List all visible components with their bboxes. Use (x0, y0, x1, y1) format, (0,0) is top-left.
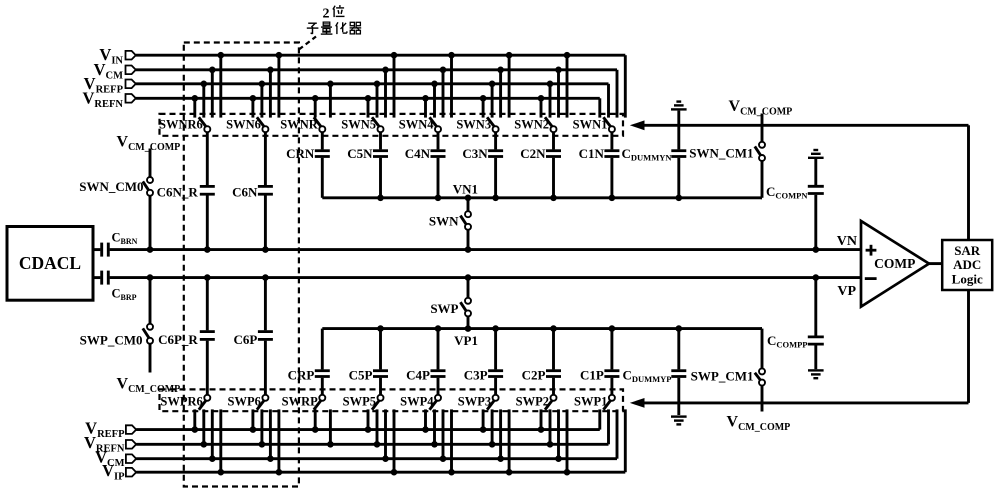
wire V_REFP bus (bottom) (136, 428, 600, 431)
capacitor C5P (349, 329, 388, 395)
svg-text:C4P: C4P (406, 368, 430, 383)
wire SWPR6 tap V_IP (218, 409, 225, 475)
switch SWN4 (399, 117, 441, 132)
wire SWPR6 tap V_REFN (201, 409, 208, 447)
svg-text:SWN_CM0: SWN_CM0 (79, 179, 143, 194)
wire CDACL to C_BRN (93, 248, 100, 251)
svg-text:SWN6: SWN6 (226, 117, 261, 131)
svg-text:C6N: C6N (232, 184, 258, 199)
port V_REFN (bottom) (84, 433, 136, 455)
svg-text:SWNR6: SWNR6 (159, 117, 203, 131)
svg-text:SWP3: SWP3 (458, 394, 491, 408)
wire SWN1 tap V_CM (bus end) (616, 70, 619, 118)
svg-text:CDACL: CDACL (19, 253, 81, 273)
capacitor C5N (347, 132, 388, 198)
svg-text:SWP: SWP (430, 301, 458, 316)
svg-text:C5P: C5P (349, 368, 373, 383)
wire SWN4 tap V_IN (448, 52, 455, 118)
node V_CM_COMP (upper right) (729, 98, 793, 142)
wire SAR feedback to N switch array (644, 125, 969, 240)
capacitor C6N_R (157, 132, 215, 253)
wire V_CM bus (bottom) (136, 457, 617, 460)
ground (above C_COMPN) (808, 150, 824, 158)
capacitor C6P (234, 274, 273, 394)
wire SWN2 tap V_REFN (538, 95, 545, 118)
port V_IN (top) (99, 45, 135, 66)
capacitor C3P (464, 329, 503, 395)
svg-text:VN1: VN1 (453, 182, 478, 197)
wire SWP3 tap V_REFP (480, 409, 487, 433)
node V_CM_COMP (upper left) (117, 134, 181, 178)
wire SWP2 tap V_REFN (547, 409, 554, 447)
label: 2-bit sub-quantizer (Chinese) line 2 (307, 22, 361, 34)
wire SWN6 tap V_IN (276, 52, 283, 118)
wire SWN3 tap V_REFN (480, 95, 487, 118)
svg-text:ADC: ADC (953, 257, 981, 272)
wire SWN2 tap V_IN (564, 52, 571, 118)
ground (above C_DUMMYN) (671, 102, 687, 110)
wire SWN4 tap V_REFP (431, 81, 438, 118)
svg-text:VP1: VP1 (454, 333, 478, 348)
svg-text:SWN4: SWN4 (399, 117, 434, 131)
svg-text:SWN: SWN (429, 213, 459, 228)
wire V_REFN bus (bottom) (136, 443, 608, 446)
svg-text:C6P_R: C6P_R (158, 332, 198, 347)
svg-text:C6N_R: C6N_R (157, 184, 199, 199)
wire SWN4 tap V_REFN (422, 95, 429, 118)
svg-text:C2P: C2P (522, 368, 546, 383)
wire SWN3 tap V_CM (497, 67, 504, 118)
capacitor C_BRN (102, 231, 138, 257)
switch SWNR6 (159, 117, 210, 132)
switch SWN6 (226, 117, 268, 132)
capacitor C_DUMMYP (622, 329, 686, 415)
switch SWN3 (456, 117, 498, 132)
svg-text:C5N: C5N (347, 146, 373, 161)
wire SWNR6 tap V_REFP (201, 81, 208, 118)
svg-text:CRN: CRN (286, 146, 315, 161)
wire SWN5 tap V_IN (391, 52, 398, 118)
svg-text:SWP5: SWP5 (343, 394, 376, 408)
switch SWP_CM0 (80, 274, 154, 372)
capacitor C_DUMMYN (622, 111, 687, 198)
wire VN line (110, 248, 861, 251)
svg-text:C3P: C3P (464, 368, 488, 383)
svg-text:SWP6: SWP6 (228, 394, 261, 408)
wire SWP3 tap V_IP (506, 409, 513, 475)
ground (below C_COMPP) (808, 370, 824, 378)
capacitor C2N (520, 132, 561, 198)
switch SWRP (282, 394, 326, 409)
switch SWN5 (341, 117, 383, 132)
wire SWP3 tap V_CM (497, 409, 504, 462)
wire SWP6 tap V_IP (276, 409, 283, 475)
capacitor C_COMPN (766, 159, 824, 253)
capacitor C1P (580, 329, 619, 395)
wire comparator output (929, 262, 942, 265)
capacitor C2P (522, 329, 561, 395)
port V_REFP (top) (84, 74, 136, 96)
switch SWNR (280, 117, 325, 132)
node V_CM_COMP (lower left) (117, 376, 181, 396)
wire SWP4 tap V_REFP (422, 409, 429, 433)
wire SWNR6 tap V_IN (218, 52, 225, 118)
switch SWP1 (574, 394, 615, 409)
wire SWP1 tap V_REFP (bus end) (598, 409, 601, 429)
wire CDACL to C_BRP (93, 276, 100, 279)
capacitor CRP (288, 329, 330, 395)
dashed pointer line to label (299, 37, 316, 50)
dashed box: N-side switch array (160, 114, 624, 136)
switch SWP (430, 274, 471, 328)
wire SWP5 tap V_REFN (374, 409, 381, 447)
wire SAR feedback to P switch array (644, 290, 969, 403)
svg-text:C6P: C6P (234, 332, 258, 347)
capacitor C4N (405, 132, 446, 198)
svg-text:C4N: C4N (405, 146, 431, 161)
wire SWP6 tap V_CM (267, 409, 274, 462)
svg-text:SWP1: SWP1 (574, 394, 607, 408)
wire SWP2 tap V_CM (555, 409, 562, 462)
wire SWN1 tap V_REFP (bus end) (607, 84, 610, 118)
capacitor C_COMPP (767, 274, 824, 369)
capacitor C_BRP (102, 271, 137, 302)
svg-text:SWN_CM1: SWN_CM1 (689, 146, 753, 161)
svg-text:C2N: C2N (520, 146, 546, 161)
wire SWP4 tap V_IP (448, 409, 455, 475)
block SAR ADC Logic (942, 240, 992, 290)
wire SWN5 tap V_REFP (374, 81, 381, 118)
wire SWP1 tap V_CM (bus end) (616, 409, 619, 458)
wire SWP4 tap V_REFN (431, 409, 438, 447)
wire SWP2 tap V_REFP (538, 409, 545, 433)
wire SWP3 tap V_REFN (489, 409, 496, 447)
wire SWP1 tap V_IP (bus end) (624, 409, 627, 472)
svg-text:SWP_CM1: SWP_CM1 (691, 369, 754, 384)
capacitor C4P (406, 329, 445, 395)
wire SWN1 tap V_IN (bus end) (624, 55, 627, 117)
arrowhead N (630, 120, 645, 130)
wire SWP5 tap V_REFP (365, 409, 372, 433)
ground (below C_DUMMYP) (671, 417, 687, 425)
label VN (837, 234, 857, 249)
wire SWNR6 tap V_CM (209, 67, 216, 118)
wire VP line (110, 276, 861, 279)
capacitor C6N (232, 132, 273, 253)
switch SWP3 (458, 394, 499, 409)
wire V_REFN bus (top) (136, 97, 600, 100)
wire SWPR6 tap V_REFP (192, 409, 199, 433)
switch SWN2 (514, 117, 556, 132)
wire SWN2 tap V_REFP (547, 81, 554, 118)
port V_CM (top) (94, 60, 136, 82)
svg-text:SWP_CM0: SWP_CM0 (80, 332, 143, 347)
node V_CM_COMP (lower right) (727, 414, 791, 434)
wire SWN5 tap V_CM (382, 67, 389, 118)
op-amp U1 COMP (861, 221, 929, 307)
switch SWN1 (573, 117, 615, 132)
wire SWNR tap V_REFP (327, 81, 334, 118)
port V_IP (bottom) (102, 461, 136, 483)
node VP1 bus (322, 325, 762, 348)
wire V_IP bus (bottom) (136, 471, 625, 474)
wire SWP6 tap V_REFP (250, 409, 257, 433)
svg-text:SWN2: SWN2 (514, 117, 549, 131)
svg-text:SWN5: SWN5 (341, 117, 376, 131)
port V_REFN (top) (82, 88, 135, 110)
svg-text:VN: VN (837, 234, 857, 249)
wire SWNR6 tap V_REFN (192, 95, 199, 118)
switch SWP4 (400, 394, 441, 409)
block CDACL (7, 227, 93, 301)
wire SWN3 tap V_IN (506, 52, 513, 118)
switch SWP2 (516, 394, 557, 409)
capacitor C3N (462, 132, 503, 198)
wire V_IN bus (top) (136, 54, 626, 57)
svg-text:SWP2: SWP2 (516, 394, 549, 408)
svg-text:VP: VP (837, 284, 856, 299)
wire SWRP tap V_REFN (327, 409, 334, 447)
svg-text:2: 2 (323, 6, 330, 21)
switch SWPR6 (160, 394, 210, 409)
svg-text:C1N: C1N (579, 146, 605, 161)
svg-text:SWN3: SWN3 (456, 117, 491, 131)
wire SWPR6 tap V_CM (209, 409, 216, 462)
wire SWP4 tap V_CM (440, 409, 447, 462)
svg-text:SWPR6: SWPR6 (160, 394, 202, 408)
capacitor C6P_R (158, 274, 215, 394)
svg-text:C3N: C3N (462, 146, 488, 161)
wire SWN6 tap V_CM (267, 67, 274, 118)
wire SWP2 tap V_IP (564, 409, 571, 475)
wire SWP1 tap V_REFN (bus end) (607, 409, 610, 444)
svg-text:CRP: CRP (288, 368, 315, 383)
arrowhead P (630, 398, 645, 408)
svg-text:C1P: C1P (580, 368, 604, 383)
wire V_REFP bus (top) (136, 82, 609, 85)
wire SWN4 tap V_CM (440, 67, 447, 118)
wire V_CM bus (top) (136, 68, 617, 71)
wire SWN6 tap V_REFP (259, 81, 266, 118)
capacitor C1N (579, 132, 620, 198)
wire SWN2 tap V_CM (555, 67, 562, 118)
svg-text:Logic: Logic (952, 272, 983, 287)
switch SWP_CM1 (691, 329, 765, 412)
capacitor CRN (286, 132, 330, 198)
svg-text:SWN1: SWN1 (573, 117, 608, 131)
wire SWRP tap V_REFP (312, 409, 319, 433)
wire SWP5 tap V_IP (391, 409, 398, 475)
wire SWN5 tap V_REFN (365, 95, 372, 118)
wire SWN3 tap V_REFP (489, 81, 496, 118)
wire SWP6 tap V_REFN (259, 409, 266, 447)
port V_REFP (bottom) (85, 418, 136, 440)
node VN1 bus (322, 182, 762, 202)
svg-text:SAR: SAR (954, 243, 981, 258)
svg-text:COMP: COMP (874, 256, 915, 271)
label: 2-bit sub-quantizer (Chinese) line 1 (323, 5, 345, 21)
svg-text:SWP4: SWP4 (400, 394, 434, 408)
dashed box: 2-bit sub-quantizer (184, 43, 299, 487)
port V_CM (bottom) (95, 448, 136, 470)
switch SWN_CM0 (79, 177, 153, 253)
switch SWN (429, 198, 471, 253)
wire SWNR tap V_REFN (312, 95, 319, 118)
wire SWP5 tap V_CM (382, 409, 389, 462)
dashed box: P-side switch array (160, 389, 624, 411)
switch SWP6 (228, 394, 269, 409)
wire SWN6 tap V_REFN (250, 95, 257, 118)
switch SWP5 (343, 394, 384, 409)
wire SWN1 tap V_REFN (bus end) (598, 98, 601, 117)
label VP (837, 284, 856, 299)
switch SWN_CM1 (689, 142, 765, 198)
